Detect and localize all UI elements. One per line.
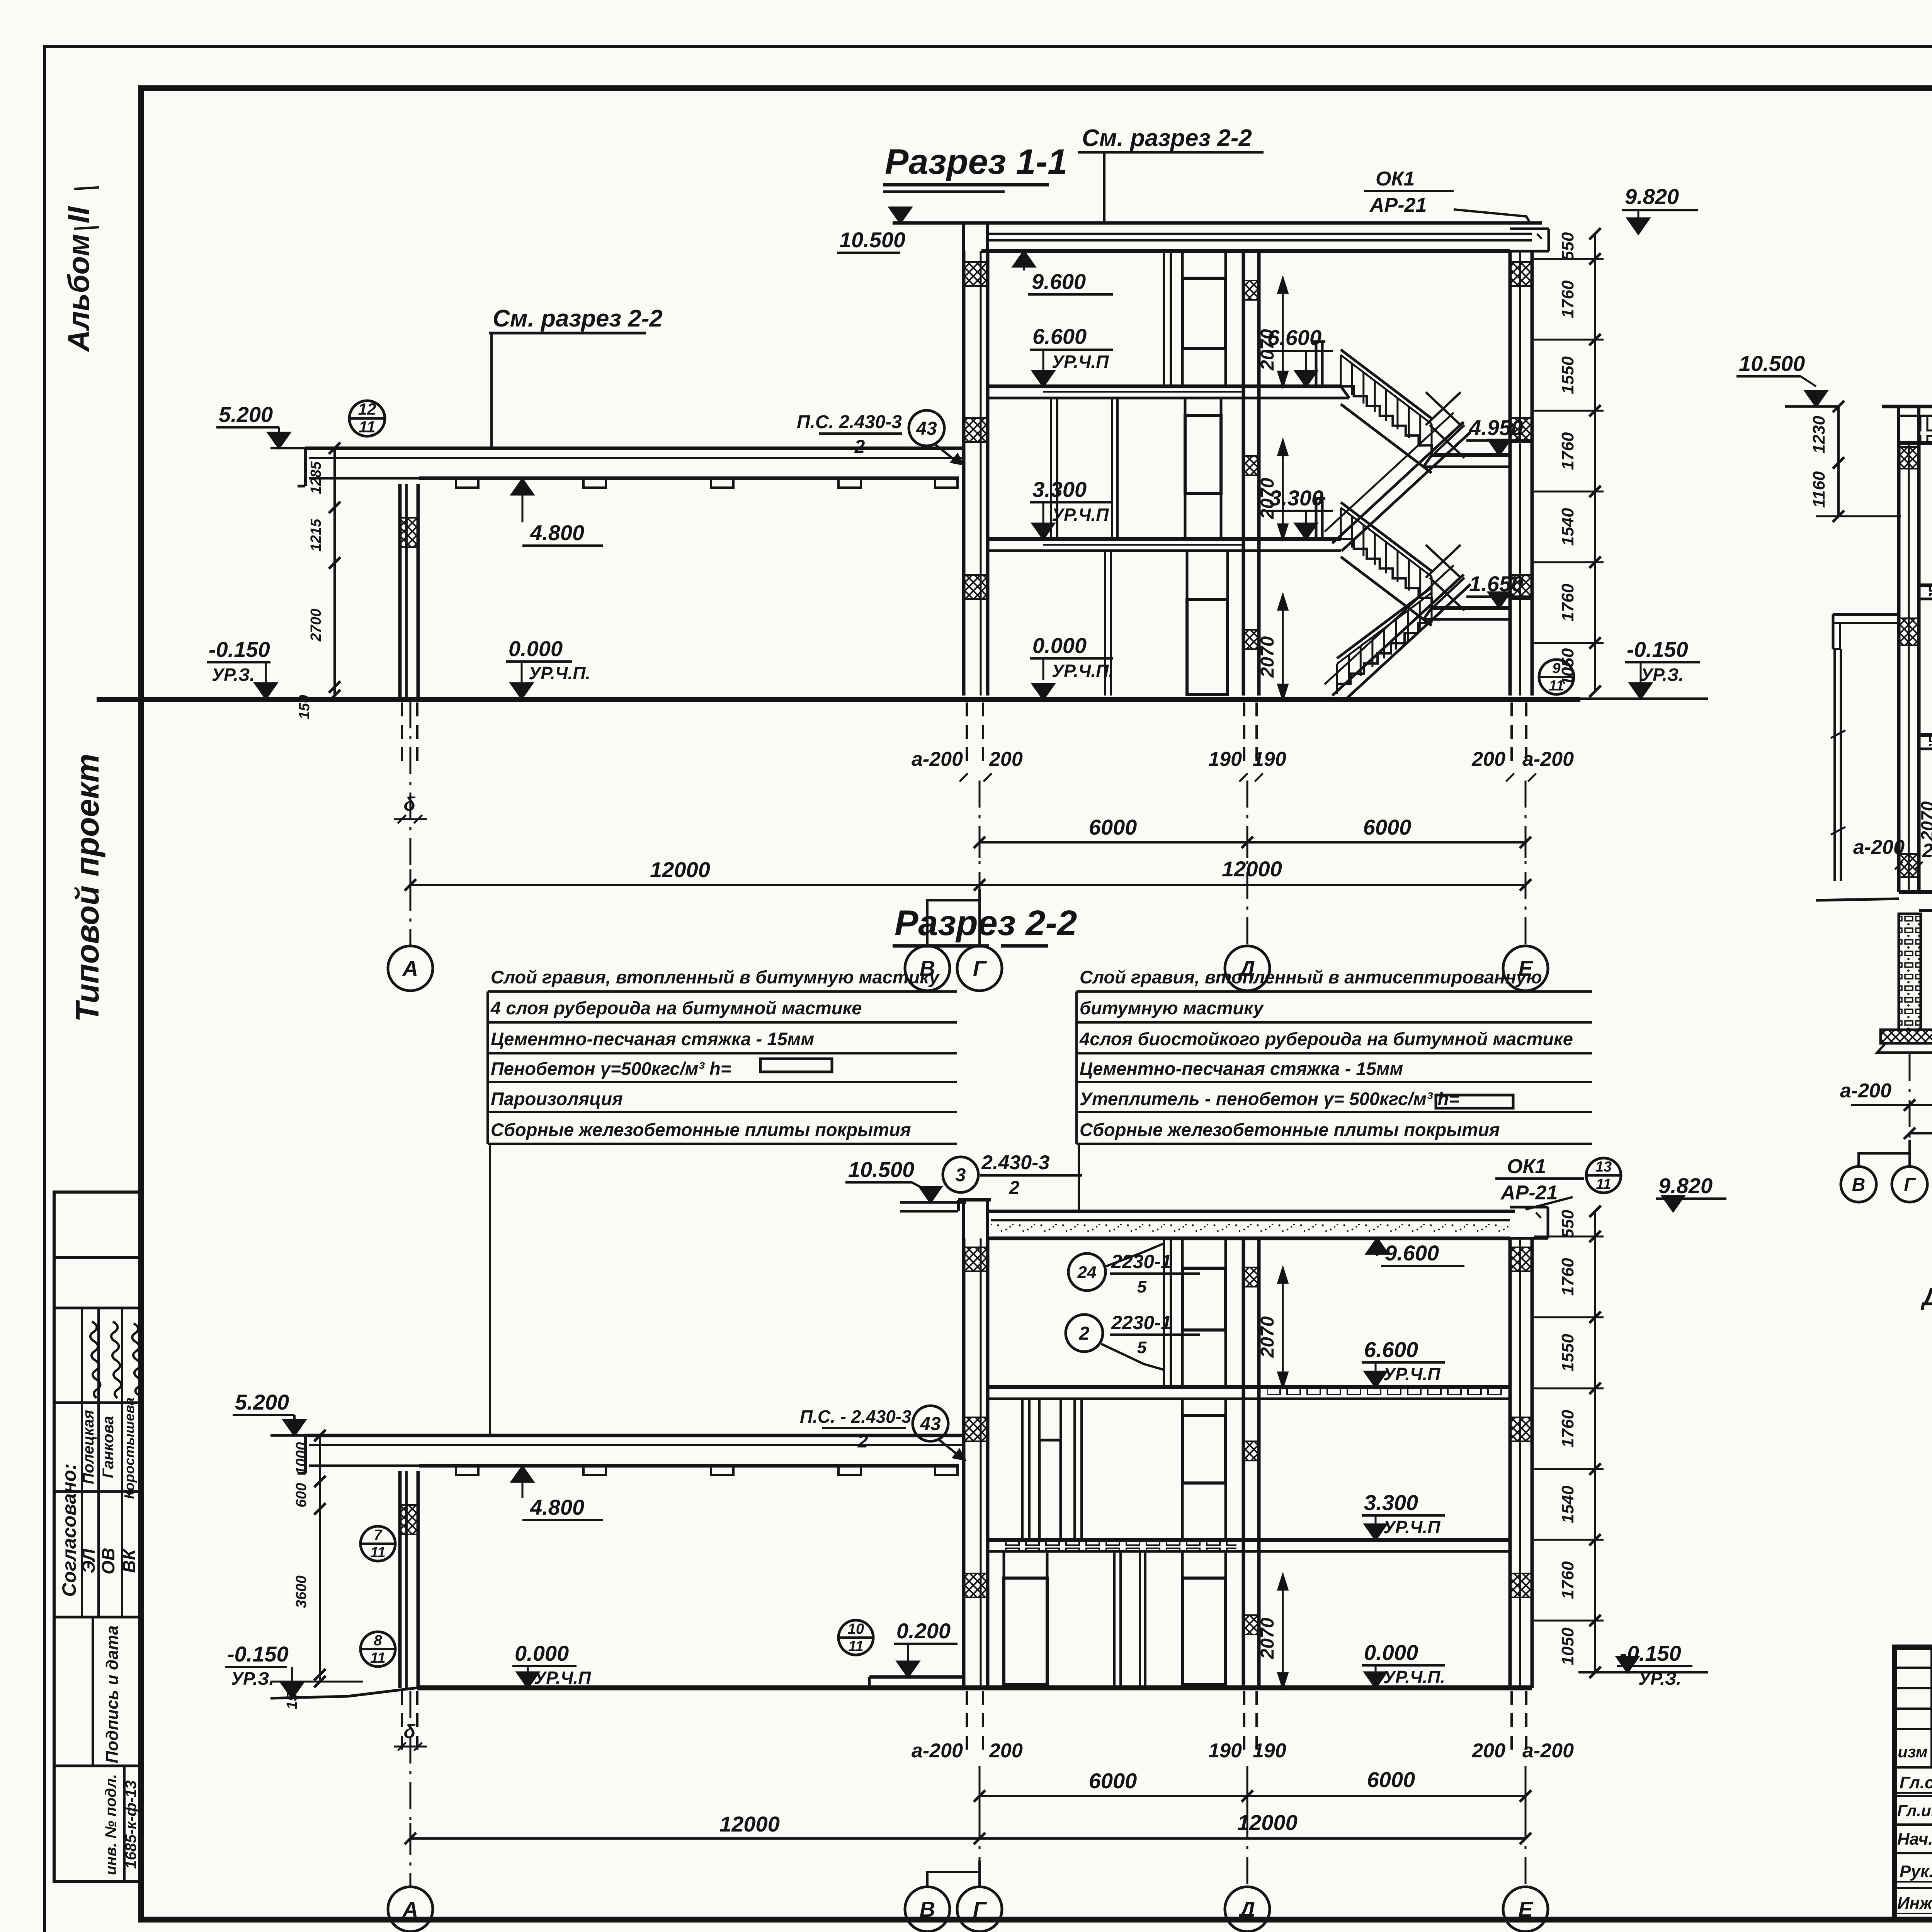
title row rukgr (1897, 1862, 1932, 1882)
dim 2070 upper 2-2 (1257, 1268, 1287, 1387)
hall roof 2-2 (298, 1435, 965, 1473)
svg-text:150: 150 (284, 1685, 300, 1709)
svg-text:См. разрез 2-2: См. разрез 2-2 (1082, 125, 1252, 151)
roof spec list left (488, 967, 957, 1144)
svg-text:4.800: 4.800 (530, 1495, 584, 1519)
floor 6.600 3-3 (1919, 585, 1932, 599)
axis circle G 2-2 (957, 1887, 1002, 1932)
flag 3.300 1-1 (1030, 477, 1113, 539)
svg-text:11: 11 (1596, 1176, 1611, 1192)
svg-text:600: 600 (293, 1483, 310, 1507)
central wall D 1-1 (1243, 251, 1259, 696)
axis lines below 1-1 (410, 701, 1526, 946)
parapet left 1-1 (964, 223, 988, 251)
cornice right 1-1 (1510, 229, 1549, 251)
axis circle D 1-1 (1225, 946, 1270, 991)
title row inzhener (1895, 1893, 1932, 1913)
margin text Tipovoy proekt (69, 753, 105, 1022)
window upper 2-2 (1182, 1238, 1226, 1387)
floor 6.600 slab 1-1 (988, 386, 1341, 398)
stair landing 4.950 (1423, 455, 1510, 467)
label P.S. 2.430-3 circle 43 2-2 (800, 1406, 965, 1460)
ground line 2-2 (417, 1677, 1532, 1688)
svg-text:Коростышева: Коростышева (121, 1398, 137, 1499)
footing labels row 1-1 (912, 748, 1574, 770)
svg-text:10.500: 10.500 (848, 1157, 914, 1182)
svg-text:Сборные железобетонные плиты: Сборные железобетонные плиты покрытия (1080, 1119, 1500, 1140)
svg-text:УР.Ч.П: УР.Ч.П (1383, 1517, 1440, 1537)
right dim chain 2-2 (1534, 1206, 1604, 1678)
svg-text:1760: 1760 (1558, 1258, 1577, 1296)
dim 2070 lower 2-2 (1257, 1575, 1287, 1688)
stair landing 6.600 (1259, 386, 1349, 398)
dim 2070 upper (1257, 278, 1287, 386)
partitions lower 1-1 (1105, 551, 1111, 696)
label OK1 AP-21 2-2 (1495, 1155, 1584, 1209)
svg-text:13: 13 (1595, 1159, 1612, 1175)
svg-text:инв. № подл.: инв. № подл. (102, 1774, 119, 1875)
table row VK (119, 1398, 139, 1573)
svg-text:2070: 2070 (1257, 1316, 1278, 1358)
svg-text:12000: 12000 (1237, 1810, 1298, 1835)
right wall 2-2 (1510, 1238, 1532, 1688)
svg-text:а-200: а-200 (1853, 836, 1905, 859)
label Sm.razrez 2-2 hall (489, 305, 663, 448)
svg-text:УР.Ч.П.: УР.Ч.П. (1383, 1667, 1445, 1687)
svg-text:Слой гравия, втопленный в анти: Слой гравия, втопленный в антисептирован… (1080, 967, 1542, 987)
axis circle A 2-2 (388, 1887, 433, 1932)
svg-text:Нач.сект: Нач.сект (1897, 1830, 1932, 1849)
axis lines below 3-3 (1910, 893, 1932, 1167)
flag 1.650 stair (1466, 571, 1531, 608)
hall 5.200 level ext line (270, 447, 402, 449)
svg-text:200: 200 (1471, 748, 1505, 770)
svg-text:1550: 1550 (1558, 1334, 1577, 1372)
stair crossing flight lower (1325, 565, 1471, 701)
svg-text:Е: Е (1518, 1897, 1533, 1922)
svg-text:6.600: 6.600 (1364, 1337, 1418, 1362)
svg-text:ВК: ВК (119, 1548, 139, 1573)
floor 3.300 slab 1-1 (988, 539, 1341, 551)
svg-text:12000: 12000 (650, 857, 710, 882)
svg-text:2230-1: 2230-1 (1111, 1312, 1172, 1333)
central wall D 2-2 (1243, 1238, 1259, 1688)
svg-text:5.200: 5.200 (235, 1390, 289, 1414)
svg-text:6000: 6000 (1089, 1769, 1137, 1793)
svg-text:24: 24 (1077, 1263, 1097, 1282)
dim b 2-2 (394, 1721, 427, 1751)
title row glinzh (1897, 1800, 1932, 1821)
svg-text:1685-к-ф-13: 1685-к-ф-13 (122, 1780, 139, 1869)
parapet left 3-3 (1899, 406, 1919, 443)
svg-text:2070: 2070 (1257, 1617, 1278, 1659)
spec leader left (489, 1144, 491, 1435)
flag 3.300 stair (1267, 486, 1333, 539)
right wall hatches 2-2 (1511, 1247, 1531, 1597)
label OK1 AP-21 1-1 (1364, 168, 1530, 223)
floor 6.600 2-2 (988, 1387, 1510, 1399)
flag 6.600 2-2 (1362, 1337, 1445, 1387)
svg-text:Г: Г (973, 956, 987, 981)
svg-text:а-200: а-200 (1522, 1740, 1574, 1762)
svg-text:δ: δ (404, 1721, 416, 1742)
title block grid (1895, 1647, 1932, 1920)
svg-text:200: 200 (989, 748, 1023, 770)
svg-text:4.800: 4.800 (530, 520, 584, 545)
door lower right 2-2 (1182, 1551, 1226, 1685)
svg-text:200: 200 (1922, 840, 1932, 861)
left wall hatches 3-3 (1900, 447, 1918, 877)
label a-200 left wall 3-3 (1853, 836, 1932, 869)
circle 8/11 2-2 (361, 1632, 395, 1667)
svg-text:Ганкова: Ганкова (100, 1416, 117, 1478)
svg-text:3.300: 3.300 (1364, 1490, 1418, 1515)
svg-text:а-200: а-200 (912, 748, 963, 770)
axis circle G 3-3 (1892, 1167, 1927, 1202)
flag -0.150 1-1 (207, 637, 277, 699)
dim b 1-1 (394, 793, 427, 823)
flag 4.800 2-2 (512, 1466, 603, 1520)
title block header row (1898, 1742, 1932, 1761)
svg-text:10: 10 (848, 1621, 864, 1637)
svg-text:2: 2 (1079, 1323, 1090, 1344)
svg-text:Г: Г (1904, 1175, 1916, 1195)
axis bracket VG 2-2 (927, 1861, 980, 1887)
svg-text:-0.150: -0.150 (1627, 637, 1688, 662)
margin text Albom II (61, 187, 99, 352)
partition wall upper 1-1 (1164, 251, 1171, 386)
svg-text:4слоя биостойкого рубероида на: 4слоя биостойкого рубероида на битумной … (1079, 1029, 1573, 1049)
table row OV (98, 1416, 118, 1574)
left dim chain 3-3 (1810, 401, 1901, 522)
table text inv nr podl (102, 1774, 119, 1875)
svg-text:ОВ: ОВ (98, 1548, 118, 1575)
door lower left 2-2 (1004, 1551, 1047, 1685)
svg-text:1760: 1760 (1558, 583, 1577, 621)
svg-text:11: 11 (848, 1638, 863, 1655)
svg-text:ОК1: ОК1 (1507, 1155, 1546, 1178)
svg-text:2: 2 (1009, 1178, 1020, 1198)
svg-text:Инженер.: Инженер. (1897, 1894, 1932, 1913)
svg-text:А: А (402, 956, 418, 981)
axis circle 9/11 (1539, 660, 1574, 694)
table text Soglasovano (58, 1463, 80, 1597)
stair railing 3.3-1.65 (1341, 502, 1432, 608)
dim 2070 middle (1257, 440, 1287, 539)
svg-text:2: 2 (857, 1431, 868, 1452)
svg-text:Сборные железобетонные плиты: Сборные железобетонные плиты покрытия (491, 1119, 911, 1140)
svg-text:200: 200 (989, 1740, 1023, 1762)
foundation pillar left 3-3 (1877, 914, 1932, 1053)
svg-text:200: 200 (1471, 1740, 1505, 1762)
left wall hatches 2-2 (964, 1247, 987, 1597)
svg-text:изм: изм (1898, 1743, 1928, 1761)
building roof slab 1-1 (893, 223, 1542, 251)
foundation dashes 2-2 (402, 1691, 1526, 1756)
title Razrez 1-1 (883, 142, 1067, 192)
svg-text:УР.Ч.П: УР.Ч.П (1052, 505, 1109, 525)
svg-text:190: 190 (1208, 748, 1242, 770)
svg-text:а-200: а-200 (1840, 1080, 1891, 1102)
flag 9.600 1-1 (1013, 251, 1113, 294)
svg-text:4 слоя рубероида на битумной м: 4 слоя рубероида на битумной мастике (490, 998, 862, 1018)
terrain left 2-2 (270, 1688, 417, 1698)
svg-text:См. разрез 2-2: См. разрез 2-2 (493, 305, 663, 332)
dim 2070 3-3 (1917, 753, 1932, 889)
svg-text:Полецкая: Полецкая (80, 1410, 97, 1484)
left wall 1-1 (964, 251, 988, 696)
svg-text:9.820: 9.820 (1658, 1173, 1713, 1198)
flag 9.820 1-1 (1622, 184, 1698, 234)
svg-text:0.000: 0.000 (509, 636, 563, 661)
dim line 6000+6000 2-2 (974, 1767, 1531, 1811)
svg-text:1000: 1000 (293, 1442, 310, 1475)
footing tick marks 1-1 (959, 773, 1536, 781)
svg-text:УР.З.: УР.З. (1641, 665, 1684, 685)
hall roof ribs (456, 478, 957, 488)
flag 0.000 hall 2-2 (512, 1641, 591, 1688)
svg-text:Подпись и дата: Подпись и дата (103, 1626, 122, 1764)
hall wall hatch 2-2 (400, 1505, 418, 1534)
wall D hatch marks (1244, 281, 1258, 649)
hall wall hatch (400, 518, 418, 547)
svg-text:Разрез 2-2: Разрез 2-2 (895, 903, 1077, 943)
svg-text:1760: 1760 (1558, 280, 1577, 318)
axis circle D 2-2 (1225, 1887, 1270, 1932)
svg-text:ОК1: ОК1 (1376, 168, 1415, 190)
dim line 6000+6000 1-1 (974, 815, 1531, 858)
flag 0.000 1-1 (1030, 633, 1114, 699)
circle 3 callout (943, 1151, 1082, 1198)
svg-text:550: 550 (1558, 1209, 1577, 1238)
table signatures (90, 1321, 141, 1398)
svg-text:6000: 6000 (1089, 815, 1137, 839)
stair flight 6.6-4.95 steps (1341, 386, 1432, 455)
left wall hatch marks 1-1 (964, 262, 987, 599)
svg-text:190: 190 (1208, 1740, 1242, 1762)
svg-text:П.С. 2.430-3: П.С. 2.430-3 (797, 412, 902, 432)
flag -0.150 right 1-1 (1580, 637, 1708, 699)
roof 3-3 (1882, 406, 1932, 443)
svg-text:Слой гравия, втопленный в биту: Слой гравия, втопленный в битумную масти… (491, 967, 940, 987)
axis circle E 2-2 (1503, 1887, 1548, 1932)
ground slab 3-3 (1899, 892, 1932, 910)
hall left wall (400, 484, 418, 699)
svg-text:3: 3 (956, 1165, 966, 1185)
svg-text:1760: 1760 (1558, 432, 1577, 470)
svg-text:1540: 1540 (1558, 1485, 1577, 1523)
flag 9.820 2-2 (1656, 1173, 1726, 1211)
foundation dashes 1-1 (402, 702, 1526, 767)
svg-text:Типовой проект: Типовой проект (69, 753, 105, 1022)
svg-text:2070: 2070 (1257, 329, 1278, 371)
dim 2070 lower (1257, 595, 1287, 699)
axis circle A 1-1 (388, 946, 433, 991)
window opening middle 1-1 (1185, 398, 1221, 539)
flag 5.200 (216, 402, 290, 448)
svg-text:Согласовано:: Согласовано: (58, 1463, 80, 1597)
partitions middle 2-2 (1022, 1399, 1082, 1540)
parapet 2-2 (958, 1200, 991, 1238)
ground line 1-1 (97, 697, 1580, 702)
floor 3.300 2-2 (988, 1540, 1510, 1551)
svg-text:9: 9 (1552, 660, 1560, 677)
svg-text:А: А (402, 1897, 418, 1922)
circle 10/11 step (838, 1619, 957, 1677)
svg-text:550: 550 (1558, 232, 1577, 260)
svg-text:43: 43 (920, 1414, 941, 1434)
svg-text:1160: 1160 (1810, 471, 1828, 508)
svg-text:9.600: 9.600 (1032, 269, 1086, 294)
margin approval table (54, 1192, 141, 1882)
roof spec list right (1077, 967, 1592, 1144)
svg-text:5: 5 (1137, 1338, 1147, 1357)
svg-text:1760: 1760 (1558, 1561, 1577, 1599)
svg-text:6000: 6000 (1363, 815, 1412, 839)
svg-text:11: 11 (1549, 678, 1564, 694)
svg-text:1760: 1760 (1558, 1410, 1577, 1447)
axis circle E 1-1 (1503, 946, 1548, 991)
flag 4.800 hall (512, 479, 603, 546)
right wall 1-1 (1510, 251, 1532, 696)
svg-text:12: 12 (358, 400, 376, 418)
table row EL (78, 1410, 99, 1573)
cornice right 2-2 (1510, 1207, 1548, 1238)
svg-text:В: В (920, 1897, 935, 1922)
roof slab 2-2 (900, 1211, 1515, 1238)
flag -0.150 right 2-2 (1578, 1641, 1708, 1689)
table text Podpis i data (103, 1626, 122, 1764)
flag 9.600 2-2 (1366, 1238, 1464, 1266)
axis circle V 3-3 (1841, 1167, 1876, 1202)
svg-text:УР.З.: УР.З. (212, 665, 255, 685)
svg-text:Разрез 1-1: Разрез 1-1 (885, 142, 1067, 182)
annex roof 3-3 (1833, 614, 1899, 649)
axis bracket VG 1-1 (927, 889, 980, 946)
svg-text:а-200: а-200 (912, 1740, 963, 1762)
svg-text:7: 7 (374, 1527, 383, 1543)
stair railing 6.6-4.95 (1341, 350, 1432, 455)
axis lines below 2-2 (410, 1691, 1526, 1887)
svg-text:УР.Ч.П.: УР.Ч.П. (529, 663, 590, 683)
wall D hatches 2-2 (1244, 1267, 1258, 1634)
stair railing X braces lower (1426, 545, 1464, 611)
svg-text:УР.Ч.П: УР.Ч.П (534, 1668, 591, 1688)
svg-text:1215: 1215 (308, 519, 324, 551)
svg-text:0.000: 0.000 (1364, 1640, 1418, 1665)
svg-text:УР.Ч.П: УР.Ч.П (1052, 352, 1109, 372)
svg-text:5.200: 5.200 (219, 402, 273, 427)
title row nachsekt (1897, 1828, 1932, 1849)
table text 1685 (122, 1780, 139, 1869)
svg-text:10.500: 10.500 (839, 228, 905, 252)
svg-text:12000: 12000 (719, 1812, 780, 1836)
svg-text:-0.150: -0.150 (209, 637, 270, 662)
svg-text:II: II (61, 206, 95, 223)
left wall 2-2 (964, 1238, 988, 1688)
svg-text:Пароизоляция: Пароизоляция (491, 1088, 623, 1109)
stair steps bottom flight (1337, 587, 1432, 694)
svg-text:Рук.гр.: Рук.гр. (1900, 1862, 1932, 1881)
svg-text:1050: 1050 (1558, 1628, 1577, 1665)
flag 4.950 stair (1466, 415, 1531, 455)
stair guard post 3.300 (1313, 498, 1325, 539)
flag 5.200 2-2 (233, 1390, 402, 1435)
annex wall lines 3-3 (1816, 649, 1899, 900)
svg-text:1540: 1540 (1558, 508, 1577, 546)
svg-text:190: 190 (1253, 1740, 1286, 1762)
annex break marks (1831, 730, 1845, 835)
svg-text:2070: 2070 (1917, 801, 1932, 841)
footing labels row 2-2 (912, 1740, 1574, 1762)
svg-text:УР.З.: УР.З. (231, 1668, 274, 1689)
svg-text:1550: 1550 (1558, 356, 1577, 394)
svg-text:2070: 2070 (1257, 478, 1278, 519)
axis circle 12/11 (349, 400, 385, 436)
stair flight 6.6-4.95 slab (1341, 404, 1432, 473)
svg-text:П.С. - 2.430-3: П.С. - 2.430-3 (800, 1406, 912, 1427)
dim line 12000 1-1 (405, 857, 1531, 900)
svg-text:4.950: 4.950 (1469, 415, 1523, 440)
partitions middle 1-1 (1051, 398, 1117, 539)
svg-text:Утеплитель - пенобетон γ= 500: Утеплитель - пенобетон γ= 500кгс/м³ h= (1080, 1088, 1459, 1109)
flag 0.000 2-2 (1362, 1640, 1445, 1688)
right wall hatch marks 1-1 (1511, 262, 1531, 599)
svg-text:9.820: 9.820 (1625, 184, 1679, 209)
svg-text:1230: 1230 (1810, 416, 1828, 454)
stair crossing flight upper (1325, 413, 1471, 551)
svg-text:8: 8 (374, 1633, 382, 1649)
partition upper 2-2 (1164, 1238, 1171, 1387)
hall left wall 2-2 (400, 1471, 418, 1688)
svg-text:битумную мастику: битумную мастику (1080, 998, 1265, 1018)
svg-text:43: 43 (916, 418, 937, 439)
svg-text:2070: 2070 (1257, 636, 1278, 678)
svg-text:12000: 12000 (1222, 857, 1282, 881)
svg-text:а-200: а-200 (1522, 748, 1574, 770)
dim line 12000 3-3 (1904, 1108, 1932, 1139)
svg-text:5: 5 (1137, 1277, 1147, 1296)
dim line 6000+6000 3-3 (1840, 1077, 1932, 1111)
top margin band line (141, 85, 1932, 91)
svg-text:УР.Ч.П: УР.Ч.П (1383, 1364, 1440, 1384)
window middle 2-2 (1182, 1399, 1226, 1540)
partitions lower 2-2 (1114, 1551, 1145, 1688)
svg-text:0.000: 0.000 (1032, 633, 1087, 658)
svg-text:АР-21: АР-21 (1500, 1182, 1558, 1204)
svg-text:Гл.инж.пр: Гл.инж.пр (1897, 1801, 1932, 1820)
hall dim chain 1285/1215/2700/150 (270, 442, 363, 719)
svg-text:11: 11 (370, 1544, 385, 1561)
dim line 12000 2-2 (405, 1810, 1531, 1854)
flag 10.500 1-1 (837, 207, 911, 253)
svg-text:УР.Ч.П.: УР.Ч.П. (1052, 661, 1114, 681)
svg-text:2.430-3: 2.430-3 (981, 1151, 1049, 1174)
svg-text:0.200: 0.200 (896, 1619, 951, 1643)
axis circle G 1-1 (957, 946, 1002, 991)
circle 24 callout (1068, 1243, 1200, 1296)
flag 6.600 1-1 (1030, 324, 1113, 386)
svg-text:Цементно-песчаная стяжка: Цементно-песчаная стяжка - 15мм (491, 1029, 814, 1049)
svg-text:Альбом: Альбом (61, 234, 95, 352)
floor 3.300 3-3 (1919, 735, 1932, 749)
svg-text:1285: 1285 (308, 461, 324, 494)
hall roof slab (298, 448, 965, 486)
spec leader right (1078, 1144, 1080, 1211)
svg-text:2: 2 (854, 437, 865, 457)
svg-text:3.300: 3.300 (1032, 477, 1087, 502)
note see sheets (1920, 1283, 1932, 1311)
